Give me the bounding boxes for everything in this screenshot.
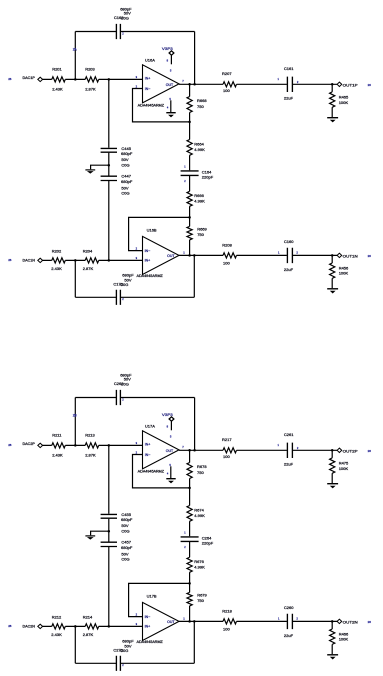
svg-text:DAC1N: DAC1N xyxy=(23,258,36,262)
svg-text:220pF: 220pF xyxy=(202,541,214,546)
svg-text:C261: C261 xyxy=(284,432,294,437)
svg-text:IN−: IN− xyxy=(145,249,151,253)
svg-text:100K: 100K xyxy=(339,271,349,276)
svg-text:IN+: IN+ xyxy=(145,624,151,628)
svg-text:2.43K: 2.43K xyxy=(51,632,62,637)
svg-text:750: 750 xyxy=(197,470,204,475)
svg-text:2.43K: 2.43K xyxy=(52,452,63,457)
svg-text:680pF: 680pF xyxy=(121,545,133,550)
svg-text:C260: C260 xyxy=(284,605,294,610)
svg-text:2.43K: 2.43K xyxy=(51,266,62,271)
svg-text:680pF: 680pF xyxy=(121,179,133,184)
svg-text:680pF: 680pF xyxy=(121,151,133,156)
svg-text:R208: R208 xyxy=(222,242,232,247)
svg-text:R217: R217 xyxy=(222,437,232,442)
svg-text:C447: C447 xyxy=(121,173,131,178)
svg-text:28: 28 xyxy=(368,620,372,624)
svg-text:U17B: U17B xyxy=(147,593,157,598)
svg-text:ADA4945ARMZ: ADA4945ARMZ xyxy=(137,274,164,278)
svg-text:2.87K: 2.87K xyxy=(85,86,96,91)
svg-text:U17A: U17A xyxy=(145,423,155,428)
svg-text:750: 750 xyxy=(197,104,204,109)
svg-text:U16A: U16A xyxy=(145,57,155,62)
svg-text:R202: R202 xyxy=(52,248,62,253)
svg-text:220pF: 220pF xyxy=(202,175,214,180)
svg-text:R475: R475 xyxy=(339,461,349,466)
svg-text:R466: R466 xyxy=(339,631,349,636)
svg-text:R207: R207 xyxy=(222,71,232,76)
svg-text:C160: C160 xyxy=(284,239,294,244)
svg-text:750: 750 xyxy=(197,598,204,603)
svg-text:26: 26 xyxy=(368,83,372,87)
svg-text:ADA4945ARMZ: ADA4945ARMZ xyxy=(138,469,165,473)
svg-text:4.99K: 4.99K xyxy=(194,198,205,203)
svg-text:2.87K: 2.87K xyxy=(85,452,96,457)
svg-text:100K: 100K xyxy=(339,100,349,105)
svg-text:100: 100 xyxy=(223,88,230,93)
svg-text:V3P3: V3P3 xyxy=(162,47,173,51)
svg-text:R669: R669 xyxy=(197,226,207,231)
svg-text:26: 26 xyxy=(368,254,372,258)
svg-text:IN−: IN− xyxy=(145,87,151,91)
svg-text:100: 100 xyxy=(223,454,230,459)
svg-text:IN−: IN− xyxy=(145,615,151,619)
svg-text:R211: R211 xyxy=(52,433,62,438)
svg-text:R212: R212 xyxy=(52,614,62,619)
svg-text:R666: R666 xyxy=(194,193,204,198)
svg-text:28: 28 xyxy=(368,449,372,453)
svg-text:R668: R668 xyxy=(197,98,207,103)
svg-text:R678: R678 xyxy=(197,464,207,469)
svg-text:DAC2N: DAC2N xyxy=(23,624,36,628)
svg-text:22uF: 22uF xyxy=(284,633,294,638)
svg-text:C161: C161 xyxy=(284,66,294,71)
svg-text:ADA4945ARMZ: ADA4945ARMZ xyxy=(138,103,165,107)
svg-text:OUT2N: OUT2N xyxy=(343,621,358,625)
svg-text:50V: 50V xyxy=(121,523,128,528)
svg-text:U16B: U16B xyxy=(147,227,157,232)
svg-text:2B: 2B xyxy=(73,413,77,417)
svg-text:R218: R218 xyxy=(222,608,232,613)
svg-text:OUT1P: OUT1P xyxy=(343,84,359,88)
svg-text:R204: R204 xyxy=(83,248,93,253)
svg-text:R676: R676 xyxy=(194,559,204,564)
svg-text:IN+: IN+ xyxy=(145,443,151,447)
svg-text:R201: R201 xyxy=(52,67,62,72)
svg-text:OUT2P: OUT2P xyxy=(343,450,359,454)
svg-text:28: 28 xyxy=(8,624,12,628)
svg-text:22uF: 22uF xyxy=(284,462,294,467)
svg-text:C0G: C0G xyxy=(121,163,129,168)
svg-text:IN+: IN+ xyxy=(145,258,151,262)
svg-text:2.87K: 2.87K xyxy=(83,632,94,637)
svg-text:50V: 50V xyxy=(121,157,128,162)
svg-text:OUT: OUT xyxy=(167,254,175,258)
svg-text:C0G: C0G xyxy=(121,529,129,534)
svg-text:22uF: 22uF xyxy=(284,96,294,101)
svg-text:OUT1N: OUT1N xyxy=(343,255,358,259)
svg-text:4.99K: 4.99K xyxy=(194,513,205,518)
svg-text:680pF: 680pF xyxy=(121,517,133,522)
svg-text:100: 100 xyxy=(223,627,230,632)
svg-text:22uF: 22uF xyxy=(284,267,294,272)
svg-text:C0G: C0G xyxy=(121,381,129,386)
svg-text:ADA4945ARMZ: ADA4945ARMZ xyxy=(137,640,164,644)
svg-text:100K: 100K xyxy=(339,466,349,471)
svg-text:R465: R465 xyxy=(339,95,349,100)
svg-text:100: 100 xyxy=(223,261,230,266)
svg-text:DAC2P: DAC2P xyxy=(23,442,36,446)
svg-text:C0G: C0G xyxy=(121,557,129,562)
svg-text:R214: R214 xyxy=(83,614,93,619)
svg-text:IN+: IN+ xyxy=(145,77,151,81)
svg-text:26: 26 xyxy=(8,258,12,262)
svg-text:R456: R456 xyxy=(339,265,349,270)
svg-text:C0G: C0G xyxy=(121,191,129,196)
svg-text:R203: R203 xyxy=(85,67,95,72)
svg-text:V3P3: V3P3 xyxy=(162,413,173,417)
svg-text:R679: R679 xyxy=(197,592,207,597)
svg-text:OUT: OUT xyxy=(167,620,175,624)
svg-text:C0G: C0G xyxy=(120,282,128,287)
svg-text:100K: 100K xyxy=(339,637,349,642)
svg-text:IN−: IN− xyxy=(145,453,151,457)
svg-text:28: 28 xyxy=(8,443,12,447)
svg-text:2.43K: 2.43K xyxy=(52,86,63,91)
svg-text:C0G: C0G xyxy=(121,15,129,20)
svg-text:C0G: C0G xyxy=(120,648,128,653)
svg-text:R213: R213 xyxy=(85,433,95,438)
svg-text:4.99K: 4.99K xyxy=(194,564,205,569)
svg-text:OUT: OUT xyxy=(166,449,174,453)
svg-text:2.87K: 2.87K xyxy=(83,266,94,271)
svg-text:26: 26 xyxy=(8,77,12,81)
svg-text:OUT: OUT xyxy=(166,83,174,87)
svg-text:DAC1P: DAC1P xyxy=(23,76,36,80)
svg-text:750: 750 xyxy=(197,232,204,237)
svg-text:4.99K: 4.99K xyxy=(194,147,205,152)
svg-text:C457: C457 xyxy=(121,539,131,544)
